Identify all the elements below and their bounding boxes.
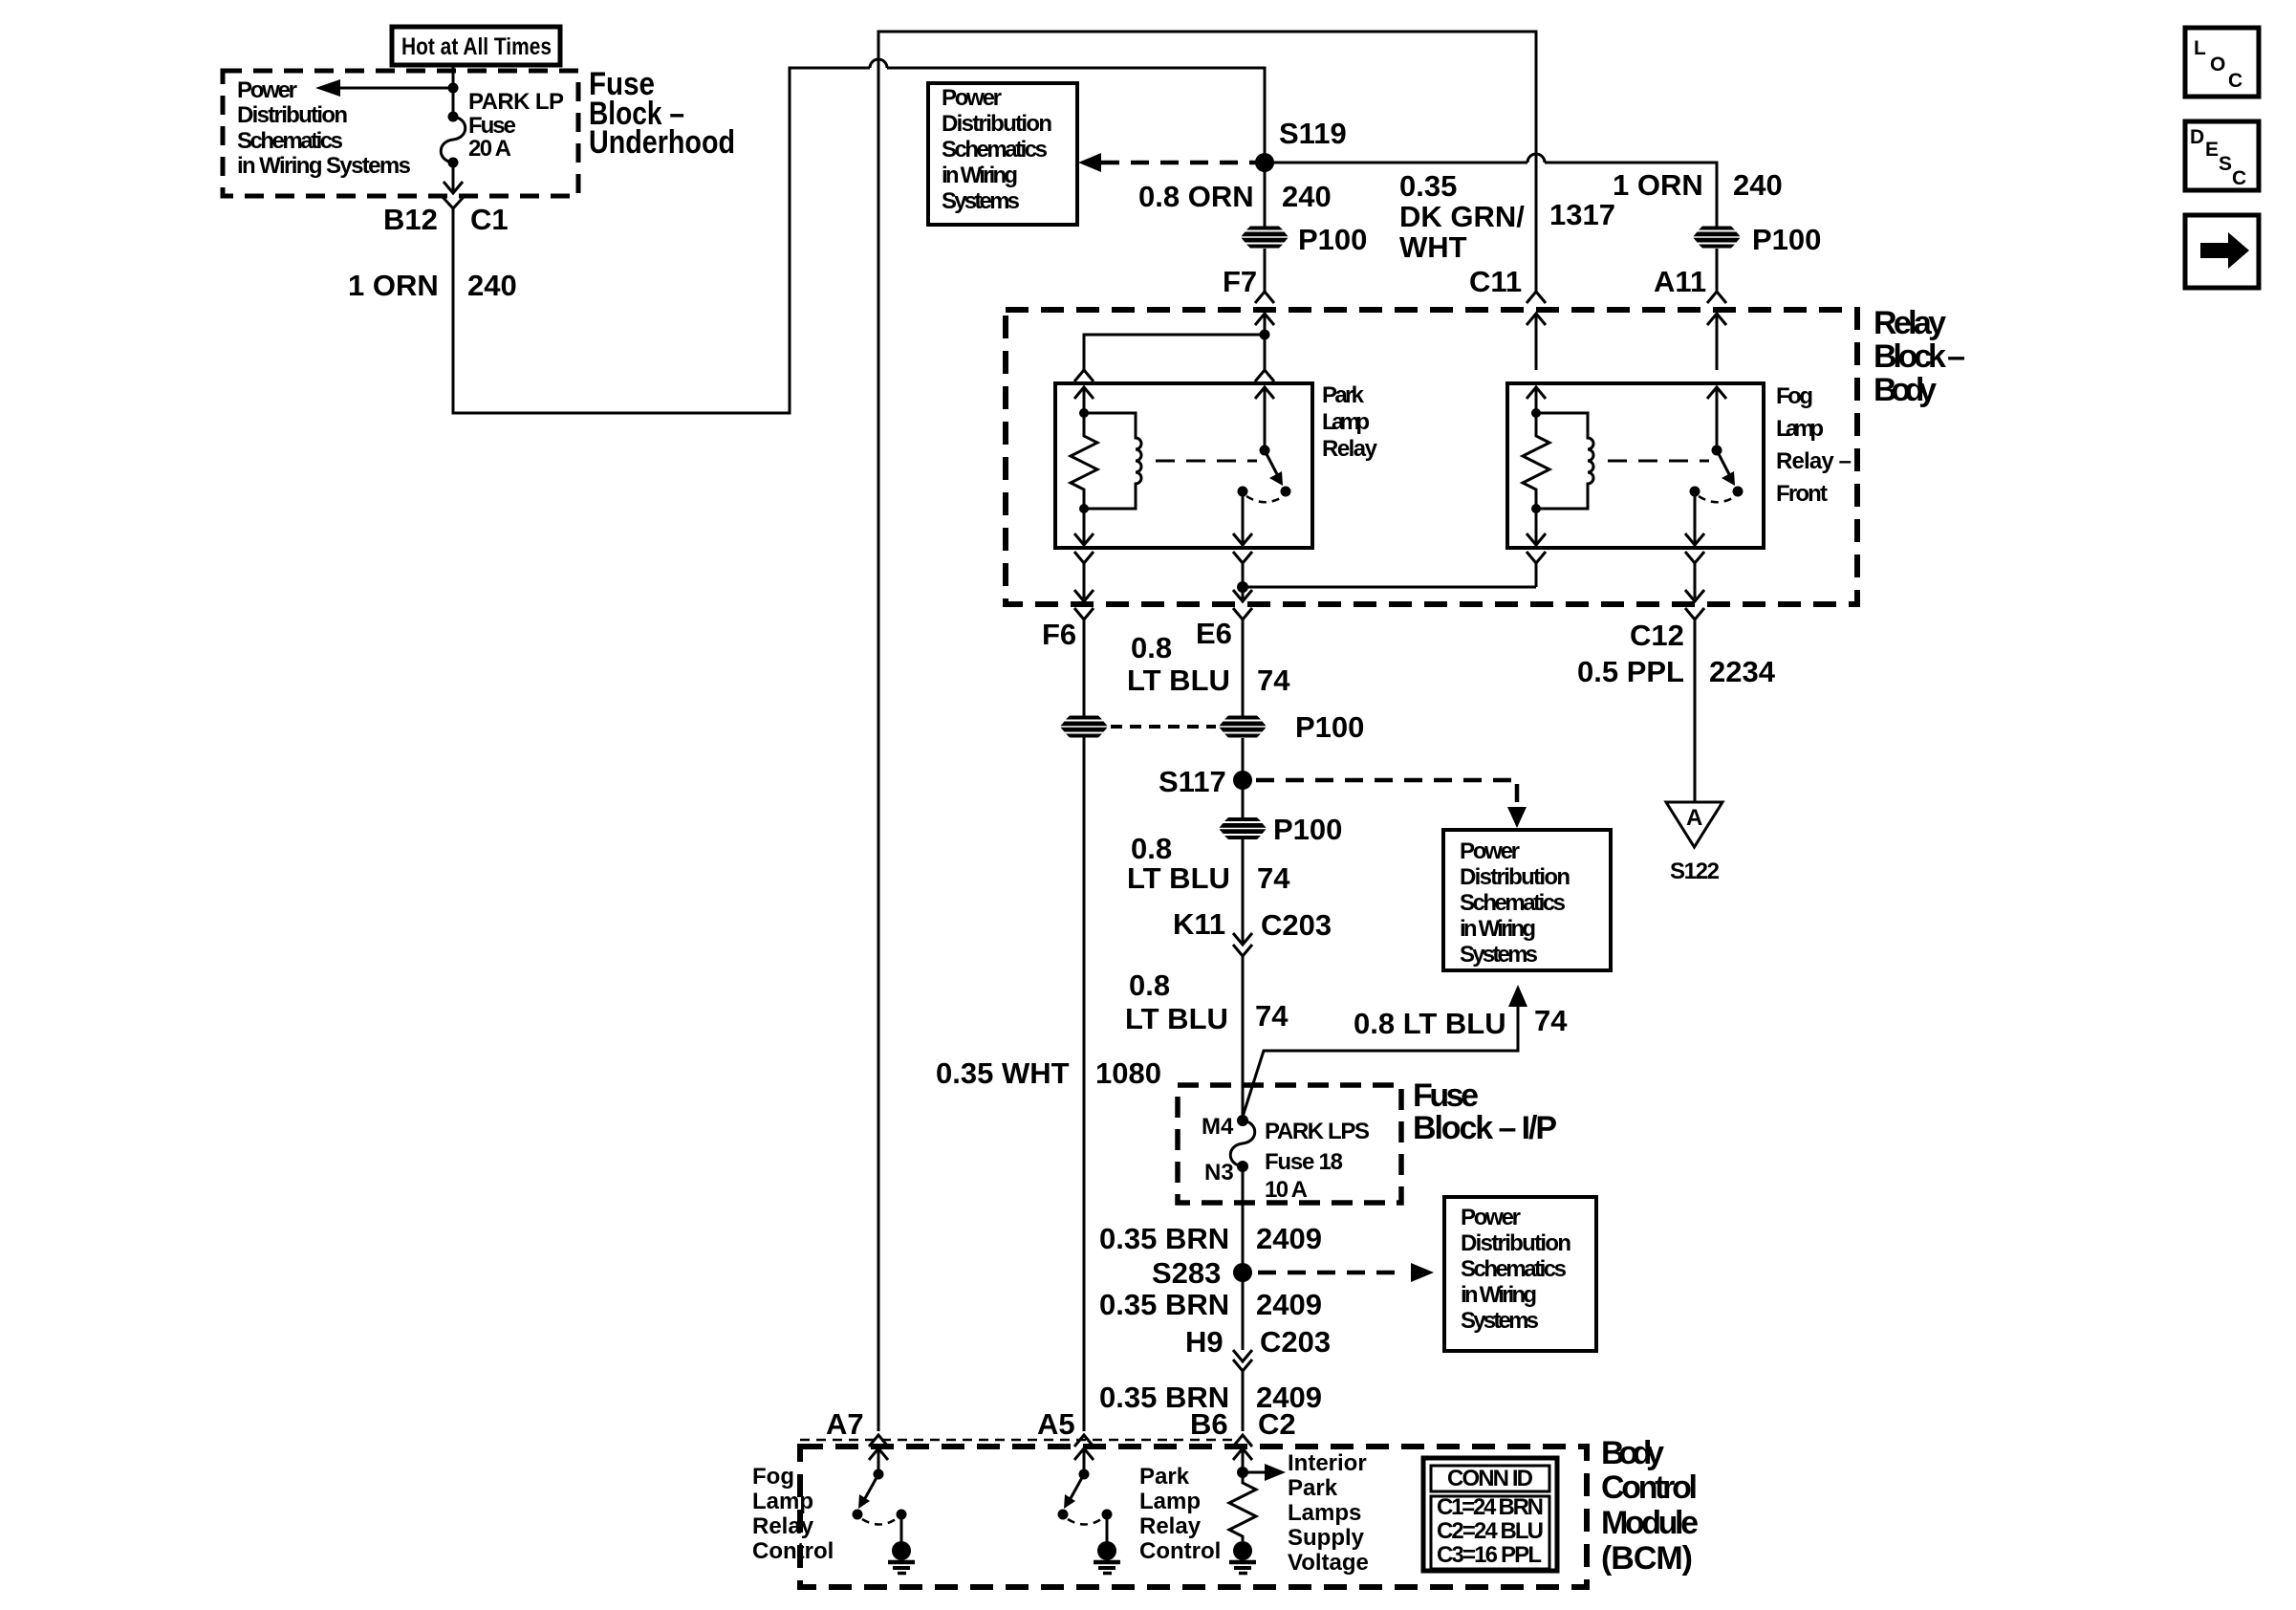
- svg-text:Relay: Relay: [1874, 305, 1946, 341]
- svg-text:Block –: Block –: [1874, 338, 1965, 375]
- svg-text:Park: Park: [1288, 1475, 1338, 1501]
- svg-text:C3=16 PPL: C3=16 PPL: [1437, 1542, 1542, 1568]
- connector C203 inline: [1233, 933, 1252, 1115]
- svg-text:Power: Power: [1461, 1205, 1521, 1230]
- park lamp relay control switch: [1058, 1469, 1113, 1525]
- svg-text:L: L: [2194, 37, 2206, 59]
- svg-text:Distribution: Distribution: [1460, 864, 1570, 890]
- svg-text:Relay: Relay: [1139, 1513, 1202, 1539]
- wire 0.8 LT BLU branch to power distribution: [1243, 985, 1527, 1117]
- power distribution box middle: [1443, 830, 1611, 970]
- svg-text:S119: S119: [1279, 117, 1347, 150]
- fog relay coil output wire: [1527, 509, 1546, 545]
- wire label 1 ORN 240 (A11): [1613, 168, 1783, 202]
- connector A11 at relay block border: [1707, 292, 1726, 370]
- wire label 0.8 LT BLU 74 (lower): [1125, 968, 1289, 1035]
- connector E6 below relay block: [1233, 608, 1252, 716]
- svg-text:Front: Front: [1776, 481, 1828, 507]
- pin labels M4 N3: [1202, 1114, 1234, 1186]
- node S119: [1255, 117, 1347, 172]
- connector below fog relay coil pin: [1527, 552, 1546, 587]
- svg-text:WHT: WHT: [1399, 230, 1467, 264]
- svg-text:PARK LPS: PARK LPS: [1265, 1119, 1370, 1144]
- wire S119 to A11 drop: [1265, 154, 1717, 227]
- svg-text:Lamp: Lamp: [1322, 409, 1370, 435]
- pin labels B12 C1: [383, 203, 509, 236]
- connector at park relay coil pin: [1074, 370, 1094, 413]
- connector below fog relay switch pin: [1685, 552, 1704, 601]
- legend box DESC: [2185, 121, 2259, 190]
- fog relay switch output wire: [1685, 491, 1704, 545]
- svg-text:S122: S122: [1670, 859, 1720, 884]
- svg-text:20 A: 20 A: [468, 136, 511, 162]
- svg-text:(BCM): (BCM): [1601, 1540, 1693, 1577]
- wire F6 long run to BCM: [1083, 737, 1086, 1431]
- interior park lamps supply node: [1237, 1464, 1286, 1481]
- pin labels K11 C203: [1173, 907, 1332, 942]
- svg-text:A5: A5: [1037, 1407, 1075, 1441]
- svg-text:B6: B6: [1190, 1407, 1228, 1441]
- node at F7 branch: [1260, 330, 1270, 340]
- svg-text:Control: Control: [752, 1538, 834, 1564]
- svg-text:Park: Park: [1322, 382, 1365, 408]
- Fuse Block I/P dashed box: [1178, 1085, 1401, 1203]
- svg-text:N3: N3: [1204, 1160, 1234, 1186]
- wire label 0.8 LT BLU 74 (mid): [1127, 832, 1290, 895]
- wire label 0.35 DK GRN/ WHT 1317: [1399, 169, 1615, 264]
- fuse PARK LPS Fuse 18 10A: [1230, 1115, 1255, 1172]
- park relay coil resistor: [1071, 408, 1097, 513]
- svg-text:H9: H9: [1185, 1325, 1224, 1359]
- wire A11 to relay block: [1716, 249, 1719, 292]
- svg-text:10 A: 10 A: [1265, 1177, 1308, 1203]
- svg-text:Distribution: Distribution: [942, 111, 1052, 137]
- svg-text:DK GRN/: DK GRN/: [1399, 200, 1525, 233]
- pin labels H9 C203: [1185, 1325, 1331, 1359]
- svg-text:B12: B12: [383, 203, 438, 236]
- svg-text:S283: S283: [1152, 1256, 1221, 1290]
- wire branch to park relay coil: [1084, 335, 1265, 370]
- ground splice S122: [1666, 802, 1722, 884]
- wire fuse output with arrow: [444, 163, 463, 193]
- wire label 0.8 ORN 240: [1138, 180, 1332, 213]
- Fog Lamp Relay Front label: [1776, 383, 1852, 507]
- wire E6 to C203: [1242, 839, 1245, 945]
- wire hop over A7 riser: [870, 59, 887, 68]
- svg-text:S: S: [2219, 153, 2232, 175]
- power distribution box lower: [1444, 1197, 1596, 1351]
- svg-text:A7: A7: [826, 1407, 864, 1441]
- park relay coil output wire: [1074, 509, 1094, 545]
- BCM connector thin dashed line: [800, 1439, 1235, 1442]
- svg-text:1 ORN: 1 ORN: [348, 269, 439, 302]
- grommet P100 on A11 wire: [1694, 223, 1822, 256]
- Interior Park Lamps Supply Voltage label: [1288, 1450, 1369, 1576]
- svg-text:P100: P100: [1295, 710, 1364, 744]
- svg-text:C11: C11: [1469, 265, 1522, 298]
- svg-text:0.35 BRN: 0.35 BRN: [1099, 1288, 1229, 1321]
- fog relay coil input arrow: [1527, 387, 1546, 413]
- connector at park relay switch pin: [1255, 370, 1274, 450]
- svg-text:Fuse 18: Fuse 18: [1265, 1149, 1343, 1175]
- node junction at fuse feed: [448, 83, 459, 94]
- svg-text:C203: C203: [1260, 1325, 1331, 1359]
- grommet P100 on E6 wire: [1220, 710, 1365, 744]
- Park Lamp Relay label: [1322, 382, 1378, 462]
- Fog Lamp Relay Control label: [752, 1464, 834, 1564]
- connector C12 below relay block: [1685, 608, 1704, 801]
- fog relay coil winding: [1536, 413, 1593, 509]
- legend box arrow: [2185, 215, 2259, 288]
- svg-text:F7: F7: [1223, 265, 1257, 298]
- svg-text:74: 74: [1534, 1004, 1568, 1037]
- svg-text:0.35: 0.35: [1399, 169, 1457, 203]
- svg-text:P100: P100: [1298, 223, 1367, 256]
- fog relay actuation dashed line: [1608, 460, 1709, 463]
- grommet P100 on E6 wire lower: [1220, 813, 1343, 846]
- Body Control Module dashed box: [800, 1447, 1587, 1587]
- svg-text:Control: Control: [1139, 1538, 1221, 1564]
- svg-text:LT BLU: LT BLU: [1127, 664, 1230, 697]
- svg-text:0.8: 0.8: [1131, 832, 1172, 865]
- Relay Block Body title: [1874, 305, 1965, 408]
- svg-text:0.5 PPL: 0.5 PPL: [1577, 655, 1684, 688]
- svg-text:M4: M4: [1202, 1114, 1234, 1140]
- fog relay coil resistor: [1523, 408, 1549, 513]
- Park Lamp Relay Control label: [1139, 1464, 1221, 1564]
- svg-text:LT BLU: LT BLU: [1127, 861, 1230, 895]
- svg-text:Power: Power: [942, 85, 1002, 111]
- svg-text:Block – I/P: Block – I/P: [1413, 1110, 1557, 1146]
- fuse PARK LP label: [468, 89, 564, 162]
- wire E6 to S117: [1242, 738, 1245, 817]
- svg-text:A: A: [1686, 805, 1702, 831]
- svg-text:Power: Power: [237, 77, 297, 103]
- wire from Hot at All Times: [452, 63, 455, 117]
- node S283: [1152, 1256, 1252, 1290]
- svg-text:Schematics: Schematics: [942, 137, 1048, 163]
- svg-text:CONN ID: CONN ID: [1447, 1466, 1533, 1491]
- grommet P100 on F6 wire: [1061, 716, 1108, 738]
- ground at interior park lamps: [1229, 1541, 1256, 1574]
- connector C11 at relay block border: [1527, 292, 1546, 370]
- svg-text:Power: Power: [1460, 838, 1520, 864]
- Fuse Block Underhood title: [589, 66, 735, 161]
- arrow to power distribution: [315, 79, 453, 97]
- svg-text:Fog: Fog: [1776, 383, 1813, 409]
- power distribution box top: [928, 83, 1077, 225]
- svg-text:C1=24 BRN: C1=24 BRN: [1437, 1494, 1544, 1520]
- wire F7 to relay block: [1264, 249, 1267, 292]
- wire label 0.5 PPL 2234: [1577, 655, 1776, 688]
- svg-text:Interior: Interior: [1288, 1450, 1367, 1476]
- wire to S119 drop: [887, 68, 1265, 157]
- svg-text:Control: Control: [1601, 1469, 1698, 1506]
- svg-text:C2: C2: [1258, 1407, 1296, 1441]
- pin label C12: [1630, 619, 1684, 652]
- svg-text:K11: K11: [1173, 907, 1225, 941]
- Hot at All Times box: [392, 27, 560, 65]
- pin labels A7 A5 B6 C2: [826, 1407, 1296, 1441]
- svg-text:0.8 ORN: 0.8 ORN: [1138, 180, 1254, 213]
- fuse PARK LPS label: [1265, 1119, 1370, 1203]
- wire F7 to park relay switch: [1264, 335, 1267, 370]
- svg-text:A11: A11: [1654, 265, 1706, 298]
- wire S283 down: [1242, 1273, 1245, 1350]
- relay box Park Lamp Relay: [1055, 383, 1312, 548]
- svg-text:Relay: Relay: [752, 1513, 814, 1539]
- svg-text:Distribution: Distribution: [1461, 1230, 1571, 1256]
- svg-text:240: 240: [467, 269, 517, 302]
- grommet P100 on F7 wire: [1242, 223, 1368, 256]
- svg-text:Fuse: Fuse: [468, 113, 516, 139]
- fog lamp relay control switch: [853, 1469, 907, 1525]
- ground at park relay control: [1094, 1514, 1120, 1574]
- svg-text:240: 240: [1282, 180, 1332, 213]
- svg-text:Hot at All Times: Hot at All Times: [401, 33, 552, 60]
- wire label 0.35 BRN 2409 (below S283): [1099, 1288, 1322, 1321]
- wire A7 riser and top bus to C11 drop: [878, 32, 1536, 1431]
- svg-text:0.8 LT BLU: 0.8 LT BLU: [1354, 1007, 1506, 1040]
- connector F6 below relay block: [1074, 608, 1094, 716]
- svg-text:Lamp: Lamp: [752, 1489, 813, 1514]
- svg-text:1 ORN: 1 ORN: [1613, 168, 1703, 202]
- svg-text:P100: P100: [1752, 223, 1821, 256]
- svg-text:in Wiring: in Wiring: [942, 163, 1018, 188]
- svg-text:C2=24 BLU: C2=24 BLU: [1437, 1518, 1544, 1544]
- relay box Fog Lamp Relay Front: [1507, 383, 1764, 548]
- dashed link between P100 grommets: [1111, 725, 1216, 729]
- svg-text:1317: 1317: [1549, 198, 1615, 231]
- connector below park relay switch pin: [1233, 552, 1252, 601]
- Relay Block Body dashed box: [1006, 310, 1857, 604]
- svg-text:D: D: [2190, 126, 2204, 148]
- park relay switch: [1238, 446, 1291, 503]
- svg-text:C: C: [2232, 167, 2246, 189]
- CONN ID table: [1423, 1458, 1557, 1571]
- connector F7 at relay block border: [1255, 292, 1274, 335]
- svg-text:Schematics: Schematics: [1461, 1256, 1567, 1282]
- svg-text:Lamps: Lamps: [1288, 1500, 1361, 1526]
- wire B12 down and across to riser: [453, 68, 870, 413]
- svg-text:Systems: Systems: [942, 188, 1020, 214]
- svg-text:Distribution: Distribution: [237, 102, 348, 128]
- svg-text:Body: Body: [1601, 1435, 1664, 1471]
- svg-text:Body: Body: [1874, 372, 1937, 408]
- svg-text:2409: 2409: [1256, 1222, 1322, 1255]
- Fuse Block I/P title: [1413, 1077, 1557, 1146]
- wire F7 drop from S119: [1264, 163, 1267, 227]
- connector below park relay coil pin: [1074, 552, 1094, 601]
- svg-text:74: 74: [1257, 861, 1290, 895]
- svg-text:Fuse: Fuse: [1413, 1077, 1479, 1114]
- pin labels F6 E6: [1042, 617, 1232, 651]
- svg-text:74: 74: [1257, 664, 1290, 697]
- svg-text:in Wiring Systems: in Wiring Systems: [237, 153, 411, 179]
- svg-text:C12: C12: [1630, 619, 1684, 652]
- wire label 0.35 WHT 1080: [936, 1056, 1161, 1090]
- svg-text:74: 74: [1255, 999, 1289, 1033]
- wire E6 branch to fog relay coil: [1243, 586, 1536, 589]
- node S117: [1159, 765, 1252, 798]
- node E6 branch: [1237, 581, 1248, 593]
- svg-text:Fog: Fog: [752, 1464, 794, 1490]
- dashed arrow S283 to power distribution: [1258, 1263, 1434, 1282]
- Fuse Block Underhood dashed box: [223, 71, 578, 196]
- pin labels F7 C11 A11: [1223, 265, 1706, 298]
- svg-text:F6: F6: [1042, 618, 1076, 651]
- svg-text:0.8: 0.8: [1131, 631, 1172, 664]
- fog relay switch input arrow: [1707, 387, 1726, 450]
- svg-text:0.35 BRN: 0.35 BRN: [1099, 1222, 1229, 1255]
- connector C2 at BCM border: [1233, 1435, 1252, 1472]
- svg-text:Systems: Systems: [1461, 1308, 1539, 1334]
- svg-text:E: E: [2205, 139, 2219, 161]
- svg-text:in Wiring: in Wiring: [1461, 1282, 1537, 1308]
- svg-text:C203: C203: [1261, 908, 1332, 942]
- svg-text:in Wiring: in Wiring: [1460, 916, 1536, 942]
- connector fork C1 below fuse block: [443, 197, 464, 208]
- svg-text:240: 240: [1733, 168, 1783, 202]
- ground at fog relay control: [888, 1514, 915, 1574]
- svg-text:PARK LP: PARK LP: [468, 89, 564, 115]
- svg-text:Schematics: Schematics: [237, 128, 343, 154]
- wire label 0.35 BRN 2409 (above S283): [1099, 1222, 1322, 1255]
- power distribution reference text (underhood): [237, 77, 411, 179]
- svg-text:0.35 WHT: 0.35 WHT: [936, 1056, 1070, 1090]
- connector A7 at BCM border: [869, 1435, 888, 1474]
- svg-text:Relay –: Relay –: [1776, 448, 1852, 474]
- svg-text:Park: Park: [1139, 1464, 1190, 1490]
- svg-text:2409: 2409: [1256, 1288, 1322, 1321]
- svg-text:P100: P100: [1273, 813, 1342, 846]
- svg-text:1080: 1080: [1095, 1056, 1161, 1090]
- svg-text:Schematics: Schematics: [1460, 890, 1566, 916]
- park relay actuation dashed line: [1156, 460, 1257, 463]
- park relay coil winding: [1084, 413, 1141, 509]
- wire label 0.8 LT BLU 74 (branch): [1354, 1004, 1568, 1040]
- svg-text:Lamp: Lamp: [1776, 416, 1824, 442]
- wire label 0.35 BRN 2409 (bottom): [1099, 1381, 1322, 1414]
- svg-text:Underhood: Underhood: [589, 124, 735, 161]
- svg-text:Module: Module: [1601, 1505, 1699, 1541]
- wire label 1 ORN 240: [348, 269, 517, 302]
- svg-text:Systems: Systems: [1460, 942, 1538, 968]
- svg-text:Supply: Supply: [1288, 1525, 1365, 1551]
- interior park lamps resistor: [1229, 1472, 1256, 1541]
- svg-text:S117: S117: [1159, 765, 1226, 798]
- svg-text:2234: 2234: [1709, 655, 1776, 688]
- svg-text:Voltage: Voltage: [1288, 1550, 1369, 1576]
- fog relay switch: [1690, 446, 1744, 503]
- svg-text:C1: C1: [470, 203, 509, 236]
- svg-text:E6: E6: [1196, 617, 1232, 650]
- park relay switch output wire: [1233, 491, 1252, 545]
- wire label 0.8 LT BLU 74 (upper): [1127, 631, 1290, 697]
- legend box LOC: [2185, 28, 2259, 97]
- svg-text:O: O: [2210, 54, 2225, 76]
- dashed arrow S117 to power distribution: [1256, 780, 1527, 828]
- svg-text:Relay: Relay: [1322, 436, 1378, 462]
- svg-text:C: C: [2228, 70, 2242, 92]
- dashed arrow S119 to power distribution: [1078, 153, 1258, 172]
- fuse PARK LP 20A: [441, 112, 466, 168]
- wire N3 to S283: [1242, 1166, 1245, 1273]
- svg-text:Lamp: Lamp: [1139, 1489, 1201, 1514]
- Body Control Module title: [1601, 1435, 1699, 1577]
- connector A5 at BCM border: [1074, 1435, 1094, 1474]
- svg-text:LT BLU: LT BLU: [1125, 1002, 1228, 1035]
- svg-text:0.8: 0.8: [1129, 968, 1170, 1002]
- connector C203 inline lower: [1233, 1350, 1252, 1431]
